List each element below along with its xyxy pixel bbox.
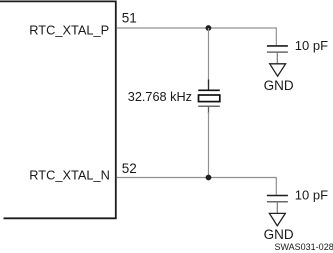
svg-text:RTC_XTAL_N: RTC_XTAL_N <box>29 168 110 183</box>
svg-text:RTC_XTAL_P: RTC_XTAL_P <box>29 23 109 38</box>
wire crystal Y1 to lower junction <box>208 112 210 178</box>
wire junction to crystal Y1 <box>208 28 210 86</box>
svg-text:52: 52 <box>122 161 137 176</box>
ground symbol (C2) <box>269 213 285 225</box>
svg-text:32.768 kHz: 32.768 kHz <box>128 90 192 104</box>
capacitor C1 <box>267 46 288 64</box>
svg-text:10 pF: 10 pF <box>295 188 328 203</box>
capacitor C2 <box>267 196 288 214</box>
svg-text:SWAS031-028: SWAS031-028 <box>275 242 333 252</box>
ground symbol (C1) <box>270 64 286 76</box>
svg-text:51: 51 <box>122 11 137 26</box>
node junction RTC_XTAL_N net <box>206 175 212 181</box>
svg-text:GND: GND <box>264 227 294 242</box>
wire pin 51 to capacitor C1 <box>117 28 277 45</box>
svg-text:10 pF: 10 pF <box>295 38 328 53</box>
IC U1 outline <box>0 1 116 218</box>
node junction RTC_XTAL_P net <box>206 25 212 31</box>
wire pin 52 to capacitor C2 <box>117 178 277 195</box>
crystal Y1 <box>198 80 220 114</box>
svg-text:GND: GND <box>264 78 294 93</box>
